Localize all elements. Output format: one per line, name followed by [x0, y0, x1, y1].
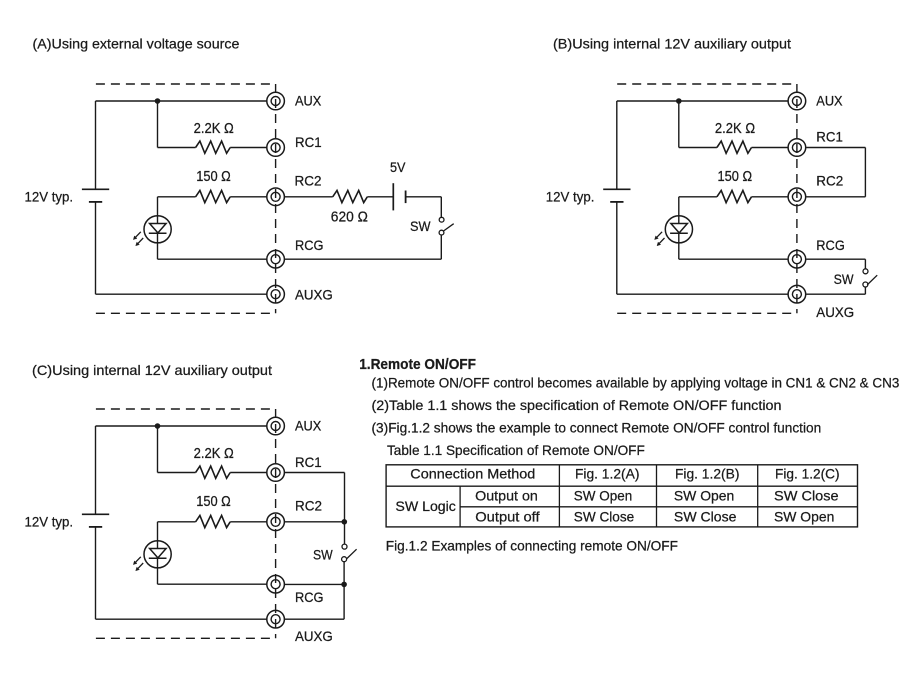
switch SW bottom contact (circuit A) — [439, 230, 444, 235]
svg-text:SW: SW — [313, 546, 333, 562]
svg-text:AUX: AUX — [295, 93, 322, 109]
power-supply dashed enclosure right edge through terminals (circuit B) — [796, 84, 798, 313]
wire drop from junction to RC1 row (circuit C) — [157, 426, 159, 473]
resistor 150 ohm (circuit C) — [196, 515, 231, 527]
wire return to RCG (circuit A) — [284, 258, 441, 260]
battery 5V long plate (circuit A) — [392, 183, 394, 210]
wire RC2 row extension right (circuit B) — [806, 196, 865, 198]
svg-text:620 Ω: 620 Ω — [331, 209, 368, 225]
junction node on AUX row (circuit B) — [676, 98, 682, 104]
svg-text:AUX: AUX — [295, 418, 322, 434]
svg-text:RCG: RCG — [295, 589, 324, 605]
svg-text:SW Open: SW Open — [574, 487, 632, 503]
power-supply dashed enclosure top edge (circuit C) — [96, 408, 276, 410]
wire left bus vertical upper (circuit C) — [95, 426, 97, 514]
wire from 620 ohm resistor to 5V source (circuit A) — [367, 196, 393, 198]
svg-text:(B)Using internal 12V auxiliar: (B)Using internal 12V auxiliary output — [553, 36, 791, 52]
wire RC1 row extension right (circuit B) — [806, 147, 865, 149]
power-supply dashed enclosure right edge through terminals (circuit C) — [275, 409, 277, 638]
wire left bus vertical lower (circuit C) — [95, 527, 97, 619]
wire right vertical RC1 down to switch (circuit C) — [344, 473, 346, 545]
svg-text:SW: SW — [410, 218, 431, 234]
LED light arrow 1 (circuit C) — [136, 557, 141, 562]
wire RC1 row right segment (circuit B) — [752, 147, 789, 149]
terminal RC2 (circuit C) — [267, 513, 285, 531]
wire RCG row (circuit A) — [158, 258, 267, 260]
table 1.1 outer border — [386, 465, 857, 527]
LED triangle (circuit A) — [150, 224, 167, 233]
wire RC2 row left segment (circuit B) — [679, 196, 717, 198]
svg-text:RCG: RCG — [816, 237, 845, 253]
battery 5V short plate (circuit A) — [405, 191, 407, 204]
terminal AUX (circuit B) — [788, 92, 806, 110]
battery 12V long plate (circuit A) — [82, 188, 109, 190]
resistor 150 ohm (circuit A) — [196, 190, 231, 202]
LED cathode bar (circuit C) — [149, 557, 167, 559]
table vertical separator Fig A / Fig B — [656, 465, 658, 527]
wire RC2 row right segment (circuit A) — [230, 196, 267, 198]
junction node on AUX row (circuit A) — [155, 98, 161, 104]
svg-text:(A)Using external voltage sour: (A)Using external voltage source — [33, 36, 240, 52]
wire AUXG row (circuit B) — [617, 293, 788, 295]
switch SW lever (circuit A) — [444, 224, 454, 231]
wire left bus vertical lower (circuit A) — [95, 202, 97, 294]
svg-text:SW Close: SW Close — [674, 508, 737, 524]
wire AUX row (circuit B) — [617, 100, 788, 102]
wire RC2 row left segment (circuit C) — [158, 521, 196, 523]
junction node on AUX row (circuit C) — [155, 423, 161, 429]
wire down to switch (circuit A) — [440, 197, 442, 218]
wire from switch down (circuit A) — [440, 235, 442, 259]
wire RCG row extension right (circuit B) — [806, 258, 865, 260]
svg-text:1.Remote ON/OFF: 1.Remote ON/OFF — [359, 357, 476, 373]
wire RC2 row right segment (circuit C) — [230, 521, 267, 523]
wire AUXG row extension right (circuit C) — [284, 618, 344, 620]
junction node RCG tap (circuit C) — [341, 582, 347, 588]
table horizontal separator middle row — [460, 506, 857, 508]
terminal AUX (circuit C) — [267, 417, 285, 435]
wire RC1 row right segment (circuit C) — [230, 472, 267, 474]
table vertical separator Connection / Fig A — [558, 465, 560, 527]
resistor 150 ohm (circuit B) — [717, 190, 752, 202]
svg-text:Output on: Output on — [475, 487, 538, 503]
svg-text:(3)Fig.1.2 shows the example t: (3)Fig.1.2 shows the example to connect … — [372, 420, 822, 436]
svg-text:2.2K Ω: 2.2K Ω — [194, 121, 234, 137]
wire from switch down to AUXG row (circuit C) — [343, 562, 345, 620]
svg-text:150 Ω: 150 Ω — [196, 494, 231, 510]
battery 12V short plate (circuit B) — [610, 201, 623, 203]
svg-text:RC2: RC2 — [295, 498, 322, 514]
terminal RC1 (circuit C) — [267, 464, 285, 482]
wire RC2 row right segment (circuit B) — [752, 196, 789, 198]
svg-text:Connection Method: Connection Method — [410, 465, 535, 481]
svg-text:(1)Remote ON/OFF control becom: (1)Remote ON/OFF control becomes availab… — [372, 375, 900, 391]
svg-text:AUXG: AUXG — [816, 304, 854, 320]
svg-text:Fig.1.2 Examples of connecting: Fig.1.2 Examples of connecting remote ON… — [386, 537, 678, 553]
wire RC2 row extension to external circuit (circuit A) — [284, 196, 332, 198]
table horizontal separator header row — [386, 485, 857, 487]
table vertical separator Fig B / Fig C — [757, 465, 759, 527]
terminal RC1 (circuit B) — [788, 139, 806, 157]
wire AUX row (circuit A) — [96, 100, 267, 102]
svg-text:(2)Table 1.1 shows the specifi: (2)Table 1.1 shows the specification of … — [372, 398, 782, 414]
power-supply dashed enclosure top edge (circuit A) — [96, 83, 276, 85]
svg-text:Fig. 1.2(B): Fig. 1.2(B) — [675, 465, 740, 481]
svg-text:RCG: RCG — [295, 237, 324, 253]
power-supply dashed enclosure bottom edge (circuit B) — [617, 312, 797, 314]
svg-text:2.2K Ω: 2.2K Ω — [715, 121, 755, 137]
switch SW lever (circuit C) — [347, 549, 357, 558]
LED indicator circle (circuit A) — [144, 216, 171, 243]
wire RC1 row extension right (circuit C) — [284, 472, 344, 474]
switch SW bottom contact (circuit C) — [342, 557, 347, 562]
terminal RC2 (circuit A) — [267, 188, 285, 206]
svg-text:5V: 5V — [390, 159, 406, 175]
wire from 5V source to switch (circuit A) — [406, 196, 442, 198]
LED light arrow 1 (circuit B) — [657, 232, 662, 237]
wire down to switch (circuit B) — [864, 259, 866, 269]
power-supply dashed enclosure bottom edge (circuit C) — [96, 637, 276, 639]
svg-text:(C)Using internal 12V auxiliar: (C)Using internal 12V auxiliary output — [32, 362, 272, 378]
svg-text:12V typ.: 12V typ. — [546, 188, 595, 204]
battery 12V long plate (circuit B) — [603, 188, 630, 190]
wire left bus vertical lower (circuit B) — [616, 202, 618, 294]
terminal RC2 (circuit B) — [788, 188, 806, 206]
power-supply dashed enclosure bottom edge (circuit A) — [96, 312, 276, 314]
wire LED anode drop (circuit C) — [157, 522, 159, 549]
svg-text:150 Ω: 150 Ω — [196, 169, 231, 185]
battery 12V short plate (circuit C) — [89, 526, 102, 528]
resistor 2.2K ohm (circuit C) — [196, 466, 231, 478]
svg-text:Table 1.1 Specification of Rem: Table 1.1 Specification of Remote ON/OFF — [387, 442, 645, 458]
svg-text:RC1: RC1 — [295, 134, 322, 150]
terminal AUX (circuit A) — [267, 92, 285, 110]
wire RCG row extension right (circuit C) — [284, 583, 344, 585]
wire drop from junction to RC1 row (circuit B) — [678, 101, 680, 148]
switch SW top contact (circuit C) — [342, 544, 347, 549]
switch SW lever (circuit B) — [867, 275, 877, 285]
svg-text:RC1: RC1 — [295, 454, 322, 470]
terminal AUXG (circuit A) — [267, 285, 285, 303]
svg-text:SW Logic: SW Logic — [395, 498, 456, 514]
wire RC2 row extension right (circuit C) — [284, 521, 344, 523]
terminal AUXG (circuit C) — [267, 610, 285, 628]
wire RC2 row left segment (circuit A) — [158, 196, 196, 198]
LED light arrow 2 (circuit C) — [138, 563, 143, 568]
wire LED cathode drop (circuit C) — [157, 558, 159, 584]
svg-text:RC2: RC2 — [295, 173, 322, 189]
terminal RCG (circuit A) — [267, 250, 285, 268]
terminal RC1 (circuit A) — [267, 139, 285, 157]
wire AUXG row extension right (circuit B) — [806, 293, 865, 295]
terminal RCG (circuit C) — [267, 575, 285, 593]
svg-text:SW Open: SW Open — [674, 487, 734, 503]
svg-text:AUXG: AUXG — [295, 286, 333, 302]
battery 12V long plate (circuit C) — [82, 513, 109, 515]
LED light arrow 1 (circuit A) — [136, 232, 141, 237]
wire RCG row (circuit B) — [679, 258, 788, 260]
resistor 2.2K ohm (circuit A) — [196, 141, 231, 153]
LED indicator circle (circuit C) — [144, 541, 171, 568]
svg-text:12V typ.: 12V typ. — [25, 513, 74, 529]
LED cathode bar (circuit B) — [670, 232, 688, 234]
switch SW top contact (circuit B) — [863, 269, 868, 274]
LED cathode bar (circuit A) — [149, 232, 167, 234]
svg-text:RC1: RC1 — [816, 128, 843, 144]
terminal AUXG (circuit B) — [788, 285, 806, 303]
wire up from AUXG to switch (circuit B) — [864, 287, 866, 294]
svg-text:SW Close: SW Close — [774, 487, 839, 503]
switch SW top contact (circuit A) — [439, 217, 444, 222]
wire AUXG row (circuit A) — [96, 293, 267, 295]
wire RC1 row left segment (circuit B) — [679, 147, 717, 149]
junction node RC2 tap (circuit C) — [342, 519, 348, 525]
wire AUX row (circuit C) — [96, 425, 267, 427]
svg-text:SW: SW — [834, 271, 855, 287]
svg-text:Fig. 1.2(A): Fig. 1.2(A) — [575, 465, 640, 481]
LED light arrow 2 (circuit A) — [138, 238, 143, 243]
wire RC1 row right segment (circuit A) — [230, 147, 267, 149]
wire left bus vertical upper (circuit A) — [95, 101, 97, 189]
LED triangle (circuit B) — [671, 224, 688, 233]
wire RCG row (circuit C) — [158, 583, 267, 585]
power-supply dashed enclosure top edge (circuit B) — [617, 83, 797, 85]
resistor 2.2K ohm (circuit B) — [717, 141, 752, 153]
wire AUXG row (circuit C) — [96, 618, 267, 620]
wire LED cathode drop (circuit A) — [157, 233, 159, 259]
wire LED anode drop (circuit B) — [678, 197, 680, 224]
wire right loop vertical RC1 to RC2 (circuit B) — [864, 148, 866, 197]
wire LED anode drop (circuit A) — [157, 197, 159, 224]
svg-text:12V typ.: 12V typ. — [25, 188, 74, 204]
svg-text:150 Ω: 150 Ω — [718, 169, 753, 185]
svg-text:AUXG: AUXG — [295, 628, 333, 644]
terminal RCG (circuit B) — [788, 250, 806, 268]
svg-text:RC2: RC2 — [816, 173, 843, 189]
svg-text:Fig. 1.2(C): Fig. 1.2(C) — [775, 465, 840, 481]
power-supply dashed enclosure right edge through terminals (circuit A) — [275, 84, 277, 313]
LED light arrow 2 (circuit B) — [659, 238, 664, 243]
battery 12V short plate (circuit A) — [89, 201, 102, 203]
wire left bus vertical upper (circuit B) — [616, 101, 618, 189]
LED triangle (circuit C) — [150, 549, 167, 558]
svg-text:SW Close: SW Close — [574, 508, 635, 524]
svg-text:2.2K Ω: 2.2K Ω — [194, 446, 234, 462]
resistor 620 ohm (circuit A) — [333, 190, 368, 202]
wire drop from junction to RC1 row (circuit A) — [157, 101, 159, 148]
table vertical separator SW Logic / Output — [459, 486, 461, 527]
svg-text:Output off: Output off — [475, 508, 539, 524]
wire RC1 row left segment (circuit C) — [158, 472, 196, 474]
svg-text:SW Open: SW Open — [774, 508, 834, 524]
wire LED cathode drop (circuit B) — [678, 233, 680, 259]
wire RC1 row left segment (circuit A) — [158, 147, 196, 149]
switch SW bottom contact (circuit B) — [863, 282, 868, 287]
svg-text:AUX: AUX — [816, 93, 843, 109]
LED indicator circle (circuit B) — [665, 216, 692, 243]
